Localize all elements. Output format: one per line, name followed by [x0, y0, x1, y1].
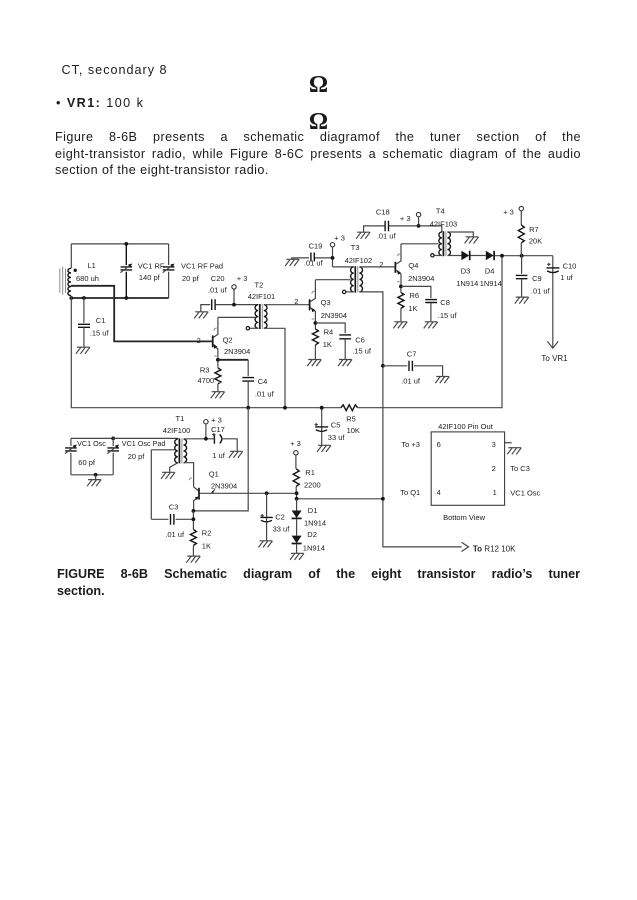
capacitor C10: [546, 256, 576, 348]
svg-text:To Q1: To Q1: [400, 488, 420, 497]
figure caption: [57, 566, 580, 601]
svg-text:VC1 RF Pad: VC1 RF Pad: [181, 262, 223, 271]
ground C2: [259, 541, 273, 548]
svg-text:33 uf: 33 uf: [273, 525, 291, 534]
ground R4: [307, 360, 321, 367]
wire +3 node to T2 primary: [232, 303, 258, 307]
pin label 2 at Q4 base: [379, 260, 383, 269]
capacitor C19: [292, 241, 333, 267]
svg-text:2: 2: [294, 297, 298, 306]
ground pin 3: [507, 448, 521, 455]
svg-text:T3: T3: [351, 243, 360, 252]
ground R6: [393, 322, 407, 329]
svg-text:42IF103: 42IF103: [430, 220, 458, 229]
svg-text:+ 3: + 3: [211, 415, 222, 424]
ground C5: [317, 445, 331, 452]
svg-text:2: 2: [197, 336, 201, 345]
svg-text:60 pf: 60 pf: [78, 458, 96, 467]
T4 primary bottom stub and pin 0: [431, 254, 442, 257]
inductor L1: [68, 244, 99, 298]
capacitor C9: [516, 256, 551, 297]
capacitor C6: [315, 323, 371, 359]
svg-text:D2: D2: [307, 530, 317, 539]
svg-text:D3: D3: [461, 266, 471, 275]
svg-text:680 uh: 680 uh: [76, 274, 99, 283]
svg-text:42IF100 Pin Out: 42IF100 Pin Out: [438, 422, 494, 431]
svg-text:1K: 1K: [408, 304, 417, 313]
arrow To VR1: [541, 341, 568, 363]
svg-text:2N3904: 2N3904: [321, 311, 347, 320]
svg-text:C8: C8: [440, 298, 450, 307]
ground C8: [424, 322, 438, 329]
svg-text:1N914: 1N914: [456, 279, 478, 288]
svg-text:Q1: Q1: [209, 470, 219, 479]
svg-text:T2: T2: [255, 281, 264, 290]
ground C18: [356, 232, 370, 239]
svg-text:2N3904: 2N3904: [224, 347, 250, 356]
ground VC1 Osc box: [87, 475, 101, 486]
svg-text:C20: C20: [211, 274, 225, 283]
transformer T4: [430, 206, 458, 256]
svg-text:.15 uf: .15 uf: [438, 311, 458, 320]
wire L1 box bottom: [69, 296, 168, 300]
svg-text:VC1 Osc Pad: VC1 Osc Pad: [122, 439, 166, 448]
wire T1 secondary top: [184, 438, 215, 440]
power +3 terminal at R1: [290, 439, 301, 469]
svg-text:T1: T1: [176, 414, 185, 423]
svg-text:.01 uf: .01 uf: [165, 530, 185, 539]
transistor Q3: [310, 280, 347, 323]
svg-text:10K: 10K: [347, 426, 360, 435]
svg-text:.01 uf: .01 uf: [531, 287, 551, 296]
resistor R5: [341, 405, 360, 435]
capacitor C4: [242, 360, 274, 410]
svg-text:4: 4: [437, 488, 441, 497]
svg-text:.15 uf: .15 uf: [352, 346, 372, 355]
svg-text:L1: L1: [88, 261, 96, 270]
svg-text:2200: 2200: [304, 481, 321, 490]
pin 3 stub to ground: [505, 442, 512, 444]
svg-text:42IF100: 42IF100: [163, 426, 191, 435]
capacitor C3: [151, 503, 193, 539]
header line: CT, secondary 8: [62, 63, 168, 77]
svg-text:3: 3: [492, 440, 496, 449]
resistor R7: [518, 225, 542, 256]
junction C7 node: [381, 364, 385, 368]
svg-text:.01 uf: .01 uf: [377, 232, 397, 241]
capacitor C5: [315, 406, 346, 445]
svg-text:C7: C7: [407, 350, 417, 359]
svg-text:Q3: Q3: [321, 298, 331, 307]
omega 1: [0, 73, 637, 97]
ground C9: [515, 297, 529, 304]
ground C17: [229, 451, 243, 458]
capacitor C7: [383, 350, 443, 386]
svg-text:To R12 10K: To R12 10K: [473, 545, 516, 554]
svg-text:2: 2: [379, 260, 383, 269]
capacitor C1: [78, 298, 109, 347]
svg-text:2N3904: 2N3904: [408, 274, 434, 283]
svg-text:VC1 RF: VC1 RF: [138, 262, 165, 271]
svg-text:R2: R2: [202, 528, 212, 537]
svg-text:R7: R7: [529, 225, 539, 234]
L1 core: [60, 267, 66, 295]
svg-text:42IF101: 42IF101: [248, 292, 276, 301]
svg-text:D4: D4: [485, 266, 495, 275]
svg-text:.01 uf: .01 uf: [255, 390, 275, 399]
svg-text:+ 3: + 3: [290, 439, 301, 448]
svg-text:1N914: 1N914: [304, 518, 326, 527]
svg-text:D1: D1: [308, 506, 318, 515]
transistor Q2: [213, 317, 251, 359]
ground D2: [290, 553, 304, 560]
variable capacitor VC1 RF Pad: [163, 244, 223, 298]
power +3 terminal at R7: [503, 206, 523, 224]
power +3 terminal at C20: [232, 274, 248, 304]
wire L1 box top: [71, 242, 168, 246]
diode D2: [292, 519, 325, 553]
svg-text:C18: C18: [376, 207, 390, 216]
wire T3 secondary bottom down to To R12 arrow: [359, 292, 461, 547]
svg-text:Q4: Q4: [408, 261, 418, 270]
svg-text:2: 2: [492, 464, 496, 473]
wire Q4 collector to T4 tap: [401, 243, 439, 245]
svg-text:R4: R4: [324, 328, 334, 337]
resistor R1: [293, 468, 320, 493]
wire rail right segment to detector node: [358, 256, 503, 408]
wire T3 secondary to Q4 base: [359, 266, 395, 268]
transformer T2: [248, 281, 276, 329]
wire T1 tap to C3: [151, 450, 174, 520]
svg-text:C6: C6: [355, 335, 365, 344]
svg-text:To C3: To C3: [510, 464, 530, 473]
svg-text:140 pf: 140 pf: [139, 273, 161, 282]
svg-text:1 uf: 1 uf: [212, 451, 225, 460]
svg-text:1: 1: [493, 488, 497, 497]
wire D3 to D4: [471, 255, 486, 257]
variable capacitor VC1 Osc and tank box: [65, 437, 115, 477]
svg-text:R5: R5: [346, 414, 356, 423]
svg-text:R6: R6: [410, 291, 420, 300]
svg-text:1 uf: 1 uf: [560, 273, 573, 282]
svg-text:R3: R3: [200, 366, 210, 375]
svg-text:C4: C4: [258, 377, 268, 386]
omega 2: [0, 110, 637, 134]
transistor Q1: [189, 470, 237, 511]
wire T4 secondary top to ground: [448, 232, 474, 236]
wire T2 secondary bottom to rail: [264, 328, 287, 409]
svg-text:C10: C10: [563, 261, 577, 270]
svg-text:.01 uf: .01 uf: [208, 286, 228, 295]
capacitor C8: [401, 286, 458, 321]
42IF100 pinout box: [400, 422, 540, 522]
svg-text:1N914: 1N914: [480, 279, 502, 288]
ground R3: [211, 392, 225, 399]
transistor Q4: [395, 244, 434, 287]
wire Q2 emitter to C4: [218, 359, 248, 361]
diode D3: [456, 251, 478, 288]
svg-text:To +3: To +3: [401, 440, 420, 449]
diode D1: [292, 499, 327, 528]
capacitor C2: [260, 493, 290, 540]
svg-text:42IF102: 42IF102: [345, 256, 373, 265]
svg-text:Q2: Q2: [223, 336, 233, 345]
ground C7: [435, 377, 449, 384]
svg-text:+ 3: + 3: [237, 274, 248, 283]
arrow To R12 10K: [462, 542, 517, 553]
svg-text:C9: C9: [532, 274, 542, 283]
variable capacitor VC1 RF: [120, 244, 164, 298]
svg-text:C5: C5: [331, 421, 341, 430]
svg-text:6: 6: [437, 440, 441, 449]
wire Q3 collector to T3 tap: [315, 279, 350, 281]
svg-text:1K: 1K: [323, 340, 332, 349]
transformer T3: [345, 243, 373, 292]
wire T2 secondary to Q3 base: [264, 304, 309, 306]
power +3 terminal at C18: [400, 212, 421, 227]
svg-text:.01 uf: .01 uf: [304, 259, 324, 268]
svg-text:C1: C1: [96, 316, 106, 325]
resistor R2: [190, 511, 211, 556]
svg-text:+ 3: + 3: [334, 234, 345, 243]
wire rail to Q1 emitter node: [193, 408, 248, 511]
ground T1: [161, 472, 175, 479]
ground C20: [194, 312, 208, 319]
svg-text:20 pf: 20 pf: [182, 274, 200, 283]
resistor R3: [198, 358, 221, 392]
svg-text:VC1 Osc: VC1 Osc: [77, 439, 106, 448]
svg-text:4700: 4700: [198, 376, 215, 385]
svg-text:R1: R1: [305, 468, 315, 477]
pin label 2 at Q3 base: [294, 297, 298, 306]
svg-text:33 uf: 33 uf: [328, 433, 346, 442]
capacitor C17: [211, 425, 237, 460]
wire T4 secondary bottom to D3: [448, 255, 462, 257]
svg-text:1N914: 1N914: [303, 544, 325, 553]
ground T4 secondary: [465, 237, 479, 244]
svg-text:+ 3: + 3: [400, 214, 411, 223]
svg-text:+ 3: + 3: [503, 207, 514, 216]
power +3 terminal at C19: [330, 234, 345, 267]
svg-text:1K: 1K: [202, 542, 211, 551]
wire +3 node to T4 primary: [419, 226, 442, 232]
wire Q1 collector node: [200, 491, 299, 498]
T3 primary bottom stub and pin 0: [343, 290, 354, 293]
ground C1: [76, 347, 90, 354]
resistor R4: [312, 321, 333, 359]
svg-text:C19: C19: [309, 241, 323, 250]
svg-text:T4: T4: [436, 206, 445, 215]
svg-text:C17: C17: [211, 425, 225, 434]
wire L1 tap to Q2 base: [71, 286, 212, 342]
T1 primary bottom to ground: [170, 463, 178, 472]
ground C19: [285, 259, 299, 266]
svg-text:20 pf: 20 pf: [128, 452, 146, 461]
power +3 terminal at C17: [204, 415, 222, 440]
wire osc tank to T1 primary: [113, 437, 178, 440]
bullet VR1 line: [56, 96, 144, 110]
T2 primary bottom stub and pin 0: [246, 327, 258, 330]
resistor R6: [398, 285, 419, 322]
svg-text:Bottom View: Bottom View: [443, 513, 486, 522]
wire detector node: [495, 254, 553, 258]
capacitor C20: [201, 274, 234, 311]
svg-text:C3: C3: [169, 503, 179, 512]
svg-text:.15 uf: .15 uf: [90, 329, 110, 338]
capacitor C18: [364, 207, 419, 240]
diode D4: [480, 251, 502, 288]
junction Q1 emitter node: [192, 509, 196, 513]
svg-text:2N3904: 2N3904: [211, 481, 237, 490]
svg-text:C2: C2: [275, 513, 285, 522]
pin label 2 at Q2 base: [197, 336, 201, 345]
svg-text:.01 uf: .01 uf: [401, 377, 421, 386]
transformer T1: [163, 414, 191, 463]
ground C6: [338, 360, 352, 367]
wire T1 secondary bottom to Q1 base: [184, 463, 194, 487]
wire ground rail left segment: [71, 298, 341, 408]
svg-text:20K: 20K: [529, 236, 542, 245]
variable capacitor VC1 Osc Pad: [107, 438, 165, 474]
ground R2: [186, 556, 200, 563]
paragraph: [55, 129, 581, 178]
wire collector node to T3 output line: [295, 497, 385, 501]
svg-text:To VR1: To VR1: [541, 354, 568, 363]
svg-text:VC1 Osc: VC1 Osc: [510, 488, 540, 497]
wire Q2 collector to T2 tap: [218, 316, 255, 318]
wire +3 node to T3 primary: [331, 256, 354, 267]
